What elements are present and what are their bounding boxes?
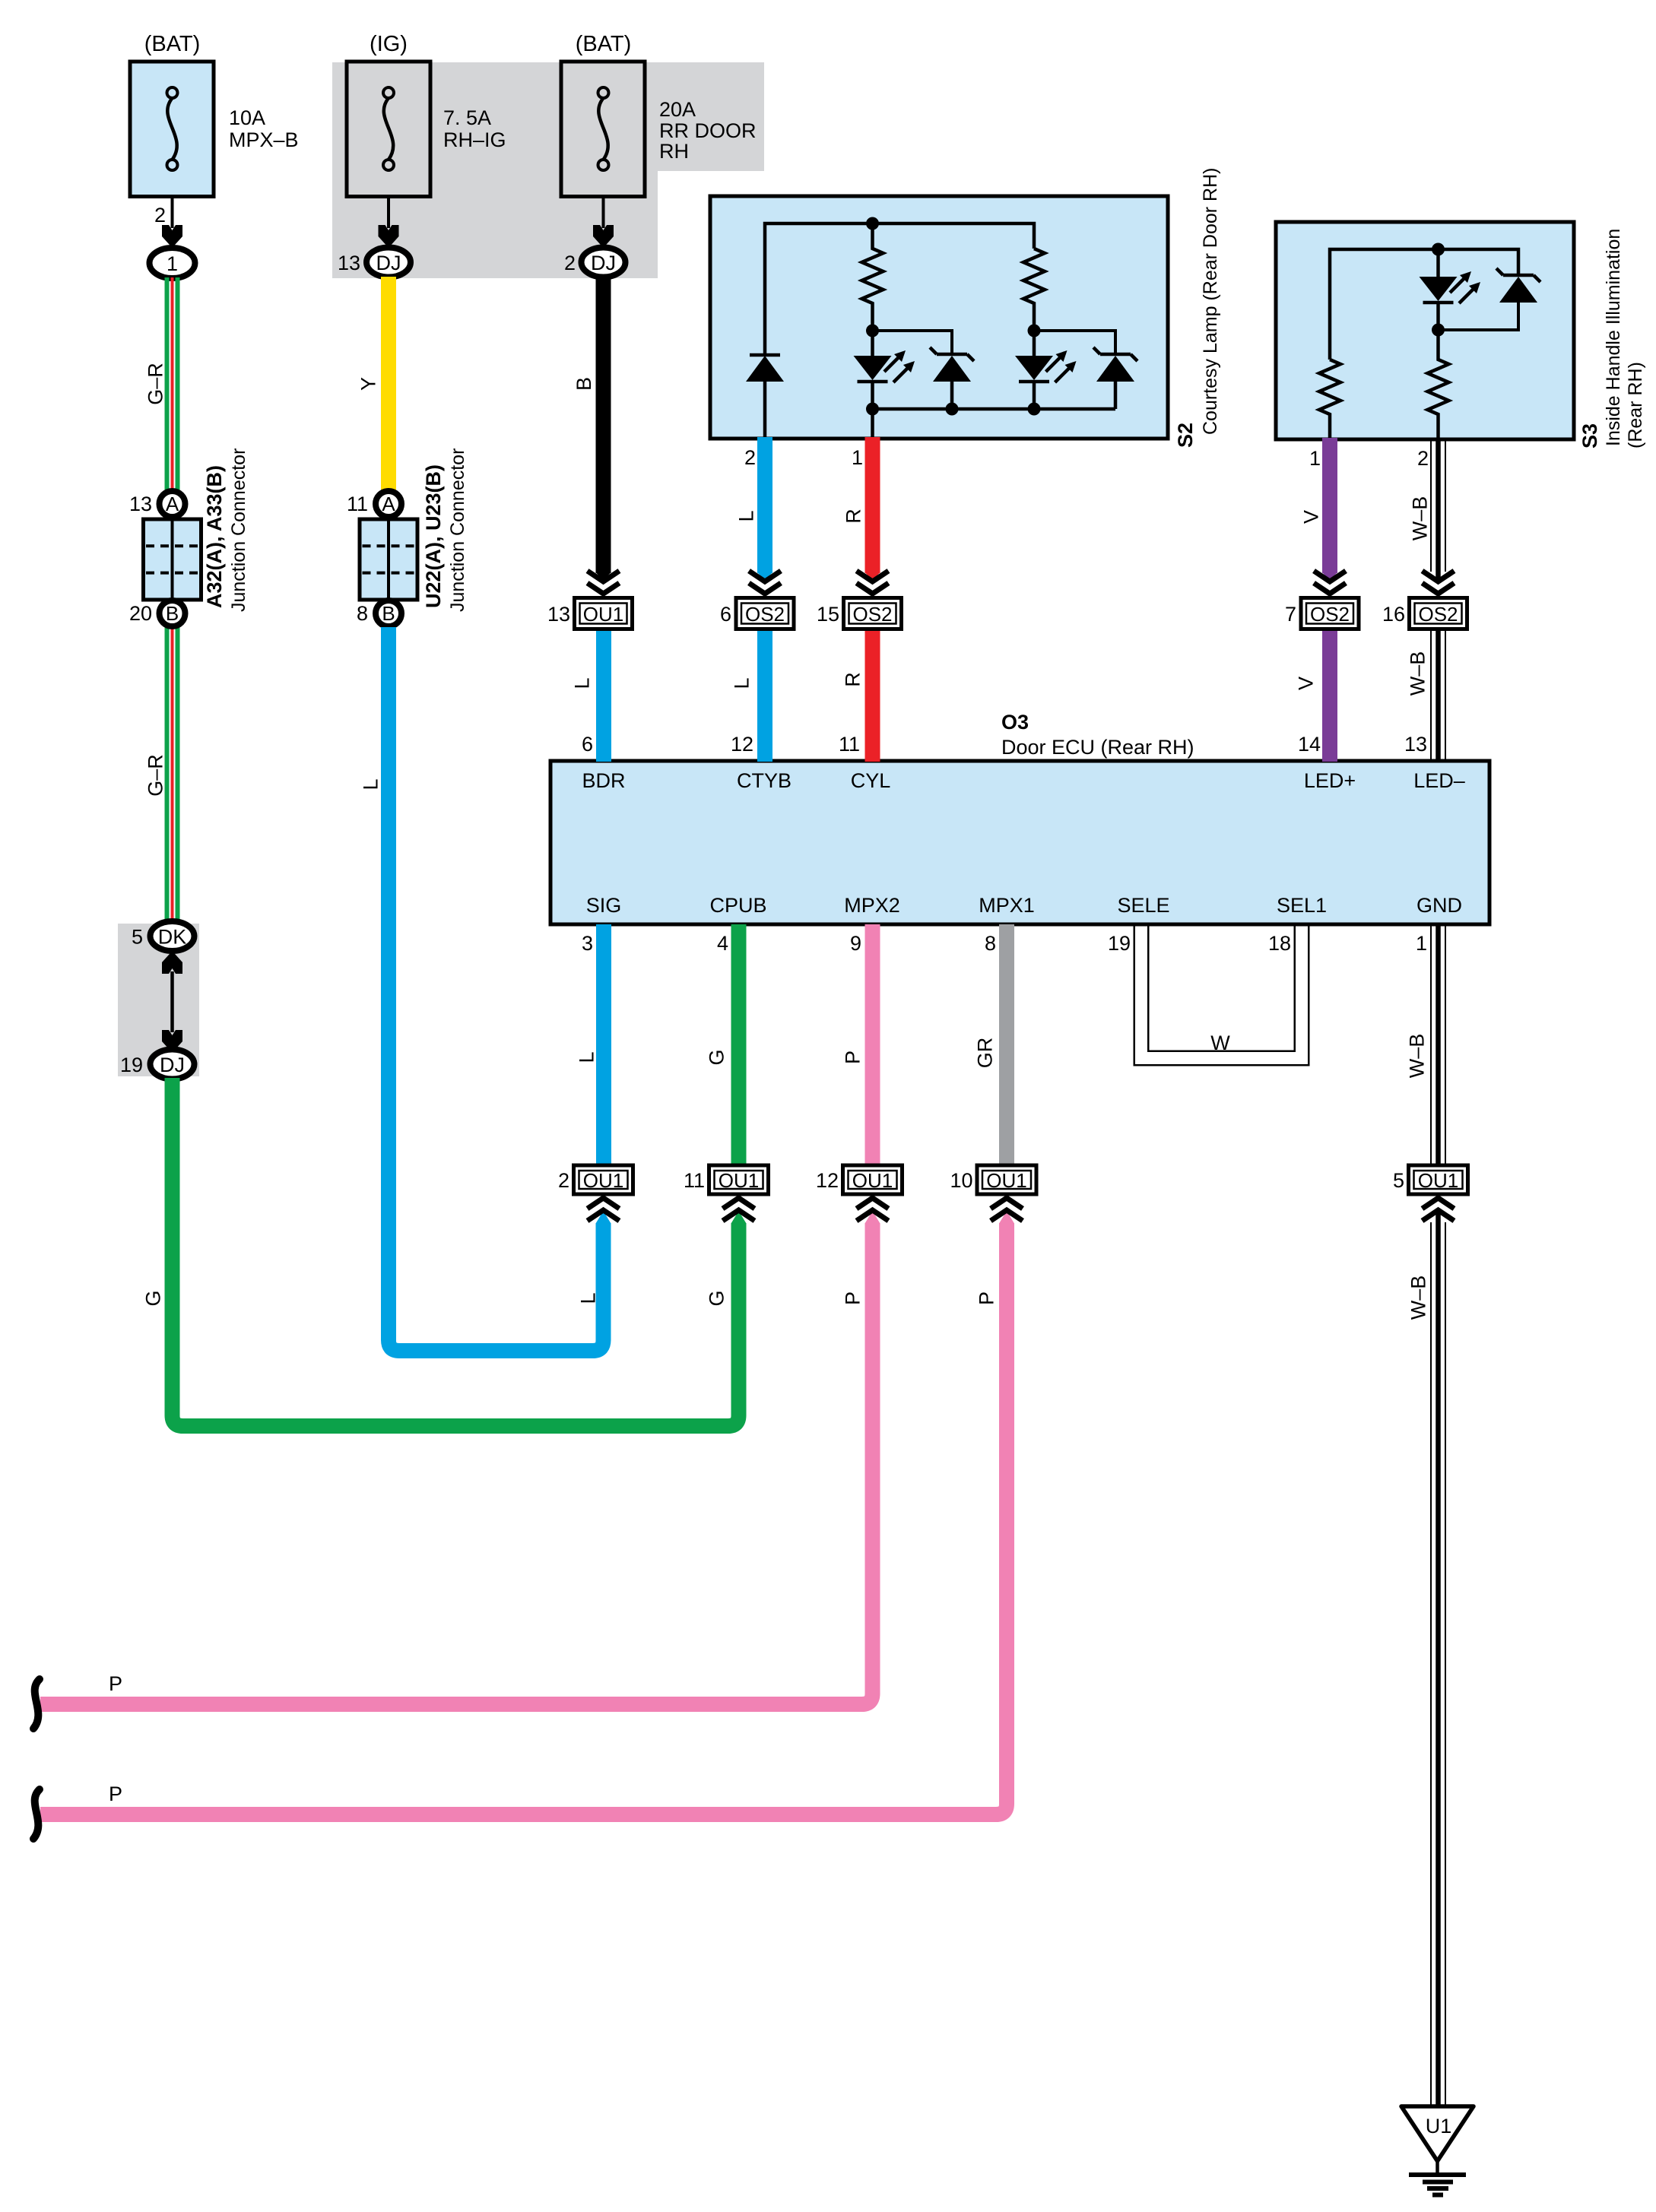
S2 wire to zener ZD1 (873, 331, 953, 354)
svg-text:W–B: W–B (1409, 496, 1432, 541)
svg-text:L: L (571, 677, 594, 689)
svg-text:A: A (382, 493, 395, 515)
svg-text:OS2: OS2 (852, 603, 892, 626)
chevron arrow below 5 OU1 (1423, 1198, 1455, 1221)
svg-text:P: P (109, 1783, 122, 1805)
svg-text:G–R: G–R (144, 754, 167, 797)
wire R from S2 pin1 to 15 OS2 (865, 437, 880, 581)
svg-text:W–B: W–B (1406, 1034, 1429, 1079)
S2 bottom node dots (866, 403, 1041, 416)
svg-text:(BAT): (BAT) (144, 32, 201, 56)
S2 bottom wire (873, 409, 1116, 439)
svg-text:11: 11 (347, 493, 368, 515)
wire stub below F1 (171, 196, 174, 228)
wire R from 15 OS2 to ECU CYL (865, 628, 880, 762)
fuse F1 label (144, 32, 299, 151)
label W (1210, 1032, 1230, 1054)
wire W-B from 16 OS2 to ECU LED- (1431, 628, 1445, 762)
S2 node dot mid right (1028, 325, 1041, 338)
connector oval DJ pin 19 (120, 1050, 195, 1079)
svg-text:OS2: OS2 (745, 603, 785, 626)
S3 zener (1439, 268, 1541, 330)
svg-text:S3: S3 (1578, 423, 1601, 448)
fuse F2 label (370, 32, 506, 151)
chevron arrow into 16 OS2 (1423, 571, 1455, 594)
wire B from DJ 2 down to connector 13 OU1 (596, 277, 611, 581)
long wire P from 12 OU1 to left break (40, 1211, 880, 1704)
S2 internal top wire (765, 223, 1034, 356)
connector box 13 OU1 (547, 598, 633, 629)
svg-text:OU1: OU1 (719, 1169, 759, 1192)
pin 2 label of F1 (154, 204, 166, 227)
label GR between MPX1 and 10 OU1 (974, 1038, 997, 1069)
svg-text:8: 8 (357, 602, 368, 625)
wire W-B from 5 OU1 to ground U1 (1431, 1210, 1445, 2106)
svg-text:19: 19 (1108, 932, 1131, 955)
wire GR from ECU MPX1 to 10 OU1 (999, 924, 1014, 1166)
long wire L from junction connector 2 B to 2 OU1 (389, 627, 611, 1351)
arrow below F3 (593, 225, 614, 248)
svg-text:OS2: OS2 (1418, 603, 1458, 626)
svg-text:CYL: CYL (851, 769, 891, 792)
svg-text:G: G (706, 1049, 728, 1065)
wire W-B from ECU GND to 5 OU1 (1431, 924, 1445, 1166)
S3 internal top wire (1330, 249, 1518, 360)
wire V from 7 OS2 to ECU LED+ (1322, 628, 1337, 762)
svg-text:P: P (842, 1051, 864, 1064)
svg-text:(IG): (IG) (370, 32, 408, 56)
connector box 6 OS2 (720, 598, 794, 629)
svg-text:U1: U1 (1426, 2115, 1452, 2138)
svg-text:DJ: DJ (376, 252, 401, 274)
break squiggle on P wire 2 (33, 1789, 40, 1839)
svg-text:2: 2 (744, 446, 756, 469)
label P below 12 OU1 (842, 1291, 864, 1305)
label P wire 2 (109, 1783, 122, 1805)
svg-text:5: 5 (1393, 1169, 1404, 1192)
svg-text:GND: GND (1416, 894, 1462, 917)
wire P from ECU MPX2 to 12 OU1 (865, 924, 880, 1166)
S3 name (1578, 229, 1646, 448)
svg-text:6: 6 (582, 733, 593, 756)
label P between MPX2 and 12 OU1 (842, 1051, 864, 1064)
label G-R upper (144, 363, 167, 405)
svg-text:SIG: SIG (586, 894, 622, 917)
label L between SIG and 2 OU1 (576, 1051, 598, 1063)
wire Y from DJ 13 to junction connector A (381, 277, 396, 490)
svg-text:B: B (382, 602, 395, 625)
svg-text:LED–: LED– (1413, 769, 1465, 792)
svg-text:Junction Connector: Junction Connector (228, 448, 249, 612)
label W-B above 16 OS2 (1409, 496, 1432, 541)
svg-text:G–R: G–R (144, 363, 167, 405)
connector box 5 OU1 (1393, 1165, 1468, 1194)
label W-B between GND and 5 OU1 (1406, 1034, 1429, 1079)
svg-text:7: 7 (1285, 603, 1296, 626)
connector oval 1 (150, 248, 195, 278)
svg-text:W–B: W–B (1407, 1276, 1430, 1320)
ECU pin names bottom (586, 894, 1462, 917)
svg-text:4: 4 (717, 932, 728, 955)
fuse F2 7.5A RH-IG (347, 62, 430, 197)
svg-text:P: P (976, 1291, 998, 1305)
wire L from S2 pin2 to 6 OS2 (757, 437, 772, 581)
junction connector 1 name (203, 448, 249, 612)
wire G-R from junction connector B to DK (165, 627, 180, 924)
S3 junction dot top (1432, 243, 1445, 256)
chevron arrow below 10 OU1 (991, 1198, 1023, 1221)
svg-text:CTYB: CTYB (737, 769, 792, 792)
chevron arrow into 15 OS2 (857, 571, 889, 594)
junction connector 2 pin labels (347, 493, 368, 625)
svg-text:11: 11 (839, 733, 860, 756)
arrow below F2 (379, 225, 399, 248)
svg-text:RH–IG: RH–IG (443, 128, 506, 151)
svg-text:Junction Connector: Junction Connector (447, 448, 468, 612)
svg-text:13: 13 (1404, 733, 1427, 756)
label R above 15 OS2 (842, 509, 865, 524)
svg-text:O3: O3 (1001, 711, 1029, 734)
junction connector 2 name (422, 448, 468, 612)
DK/DJ connector gray background (118, 924, 199, 1076)
svg-text:16: 16 (1382, 603, 1405, 626)
arrow below F1 (162, 225, 182, 248)
svg-text:B: B (573, 377, 595, 391)
svg-text:Courtesy Lamp (Rear Door RH): Courtesy Lamp (Rear Door RH) (1200, 168, 1221, 436)
svg-text:13: 13 (338, 252, 360, 274)
ECU bottom pin numbers (582, 932, 1427, 955)
label G between CPUB and 11 OU1 (706, 1049, 728, 1065)
inside handle illumination S3 box (1276, 222, 1574, 439)
svg-text:OS2: OS2 (1310, 603, 1350, 626)
svg-text:1: 1 (167, 252, 178, 275)
svg-text:W: W (1210, 1032, 1230, 1054)
svg-text:RR DOOR: RR DOOR (659, 119, 757, 142)
S3 pin numbers (1309, 447, 1429, 470)
wire W-B from S3 pin2 to 16 OS2 (1431, 438, 1445, 581)
S3 resistor R2 (1428, 330, 1449, 439)
svg-text:10: 10 (950, 1169, 972, 1192)
svg-text:(Rear RH): (Rear RH) (1625, 362, 1646, 448)
chevron arrow into 7 OS2 (1314, 571, 1346, 594)
chevron arrow below 12 OU1 (857, 1198, 889, 1221)
wire L from 13 OU1 to ECU BDR (596, 628, 611, 762)
ECU name (1001, 711, 1194, 759)
svg-text:DJ: DJ (160, 1054, 185, 1076)
label L below 13 OU1 (571, 677, 594, 689)
label G below 11 OU1 (706, 1290, 728, 1306)
label P below 10 OU1 (976, 1291, 998, 1305)
svg-text:18: 18 (1268, 932, 1291, 955)
S2 node dot mid left (866, 325, 879, 338)
svg-text:2: 2 (558, 1169, 569, 1192)
wire L from ECU SIG to 2 OU1 (596, 924, 611, 1166)
svg-text:OU1: OU1 (583, 1169, 623, 1192)
S2 LED1 (854, 331, 915, 409)
svg-text:13: 13 (547, 603, 570, 626)
S2 pin numbers (744, 446, 863, 469)
svg-text:RH: RH (659, 140, 689, 163)
connector box 7 OS2 (1285, 598, 1359, 629)
label R below 15 OS2 (842, 672, 864, 687)
svg-text:A: A (166, 493, 179, 515)
fuse F3 20A RR DOOR RH (561, 62, 645, 197)
label L on long blue wire (360, 778, 382, 790)
connector box 12 OU1 (816, 1165, 903, 1194)
svg-text:19: 19 (120, 1054, 143, 1076)
label W-B below 5 OU1 (1407, 1276, 1430, 1320)
svg-text:SELE: SELE (1117, 894, 1169, 917)
chevron arrow into 13 OU1 (588, 571, 620, 594)
connector box 10 OU1 (950, 1165, 1036, 1194)
wire W white loop SELE to SEL1 (1124, 923, 1319, 1058)
svg-text:OU1: OU1 (583, 603, 623, 626)
svg-text:3: 3 (582, 932, 593, 955)
S2 junction dot top (866, 217, 879, 230)
S2 zener ZD1 (930, 347, 974, 409)
junction connector 1 pin labels (129, 493, 152, 625)
break squiggle on P wire 1 (33, 1679, 40, 1729)
svg-text:W–B: W–B (1407, 651, 1429, 696)
label V above 7 OS2 (1300, 510, 1323, 524)
svg-text:11: 11 (684, 1169, 705, 1192)
ECU top pin numbers (582, 733, 1427, 756)
S2 diode D1 (746, 355, 784, 439)
svg-text:(BAT): (BAT) (576, 32, 632, 56)
label V below 7 OS2 (1295, 677, 1318, 690)
svg-text:1: 1 (852, 446, 863, 469)
label G-R lower (144, 754, 167, 797)
label W-B below 16 OS2 (1407, 651, 1429, 696)
svg-text:Y: Y (357, 377, 380, 391)
S2 name (1174, 168, 1221, 448)
svg-text:7. 5A: 7. 5A (443, 106, 491, 129)
svg-text:V: V (1300, 510, 1323, 524)
courtesy lamp S2 box (710, 196, 1168, 439)
S3 node dot mid (1432, 324, 1445, 337)
svg-text:8: 8 (985, 932, 996, 955)
svg-text:1: 1 (1416, 932, 1427, 955)
svg-text:L: L (731, 677, 753, 689)
svg-text:S2: S2 (1174, 423, 1197, 448)
svg-text:P: P (109, 1672, 122, 1695)
label P wire 1 (109, 1672, 122, 1695)
wire L from 6 OS2 to ECU CTYB (757, 628, 772, 762)
svg-text:15: 15 (817, 603, 839, 626)
connector oval DK pin 5 (132, 921, 195, 951)
svg-text:9: 9 (850, 932, 861, 955)
svg-text:SEL1: SEL1 (1277, 894, 1327, 917)
svg-text:DJ: DJ (591, 252, 616, 274)
svg-text:20A: 20A (659, 98, 696, 121)
junction connector U22(A),U23(B) (360, 491, 417, 626)
connector oval DJ pin 13 (338, 248, 411, 277)
svg-text:L: L (577, 1292, 600, 1304)
long wire P from 10 OU1 to left break (40, 1211, 1014, 1814)
svg-text:P: P (842, 1291, 864, 1305)
fuse F3 label (576, 32, 757, 163)
svg-text:1: 1 (1309, 447, 1321, 470)
relay block gray background (332, 62, 764, 278)
svg-text:2: 2 (1417, 447, 1429, 470)
double arrow between DK and DJ (162, 951, 182, 1053)
svg-text:Inside Handle Illumination: Inside Handle Illumination (1603, 229, 1624, 446)
svg-text:MPX–B: MPX–B (229, 128, 299, 151)
label L below 2 OU1 (577, 1292, 600, 1304)
svg-text:L: L (576, 1051, 598, 1063)
svg-text:2: 2 (154, 204, 166, 227)
svg-text:G: G (706, 1290, 728, 1306)
svg-text:2: 2 (564, 252, 576, 274)
chevron arrow below 11 OU1 (723, 1198, 755, 1221)
connector box 16 OS2 (1382, 598, 1467, 629)
svg-text:V: V (1295, 677, 1318, 690)
long wire G from DJ 19 to 11 OU1 (173, 1078, 747, 1426)
label B (573, 377, 595, 391)
svg-text:14: 14 (1298, 733, 1321, 756)
svg-text:B: B (166, 602, 179, 625)
svg-text:A32(A), A33(B): A32(A), A33(B) (203, 465, 226, 608)
svg-text:10A: 10A (229, 106, 265, 129)
fuse F1 10A MPX-B (130, 62, 214, 197)
chevron arrow below 2 OU1 (588, 1198, 620, 1221)
S2 LED2 (1015, 331, 1077, 409)
svg-text:R: R (842, 509, 865, 524)
S2 zener ZD2 (1093, 347, 1137, 409)
svg-text:DK: DK (158, 926, 187, 949)
svg-text:20: 20 (129, 602, 152, 625)
connector box 11 OU1 (684, 1165, 769, 1194)
svg-text:OU1: OU1 (986, 1169, 1026, 1192)
wire G from ECU CPUB to 11 OU1 (731, 924, 747, 1166)
S3 resistor R1 (1319, 360, 1340, 439)
svg-text:U22(A), U23(B): U22(A), U23(B) (422, 464, 445, 608)
svg-text:L: L (360, 778, 382, 790)
wire stub below F2 (387, 196, 390, 228)
svg-text:L: L (735, 510, 758, 521)
label L below 6 OS2 (731, 677, 753, 689)
label L above 6 OS2 (735, 510, 758, 521)
ECU O3 box (550, 761, 1489, 924)
svg-text:OU1: OU1 (1418, 1169, 1458, 1192)
svg-text:12: 12 (816, 1169, 839, 1192)
svg-text:G: G (142, 1290, 165, 1306)
svg-text:OU1: OU1 (852, 1169, 893, 1192)
svg-text:5: 5 (132, 926, 143, 949)
ground symbol U1 (1401, 2106, 1474, 2195)
svg-text:Door ECU (Rear RH): Door ECU (Rear RH) (1001, 736, 1194, 759)
svg-text:CPUB: CPUB (709, 894, 766, 917)
connector box 2 OU1 (558, 1165, 633, 1194)
svg-text:MPX2: MPX2 (844, 894, 900, 917)
S2 wire to zener ZD2 (1034, 331, 1115, 354)
wire V from S3 pin1 to 7 OS2 (1322, 438, 1337, 581)
svg-text:LED+: LED+ (1304, 769, 1356, 792)
svg-text:BDR: BDR (582, 769, 625, 792)
wire G-R from oval 1 to junction connector A (165, 277, 180, 490)
label Y (357, 377, 380, 391)
S3 LED (1420, 249, 1481, 330)
wire stub below F3 (602, 196, 605, 228)
svg-text:6: 6 (720, 603, 731, 626)
ECU pin names top (582, 769, 1464, 792)
svg-text:MPX1: MPX1 (979, 894, 1035, 917)
label G on long green wire (142, 1290, 165, 1306)
chevron arrow into 6 OS2 (749, 571, 781, 594)
S2 resistor R1 (862, 223, 884, 331)
svg-text:12: 12 (731, 733, 753, 756)
svg-text:13: 13 (129, 493, 152, 515)
svg-text:GR: GR (974, 1038, 997, 1069)
connector box 15 OS2 (817, 598, 902, 629)
junction connector A32(A),A33(B) (144, 491, 201, 626)
svg-text:R: R (842, 672, 864, 687)
S2 resistor R2 (1023, 249, 1045, 331)
connector oval DJ pin 2 (564, 248, 626, 277)
